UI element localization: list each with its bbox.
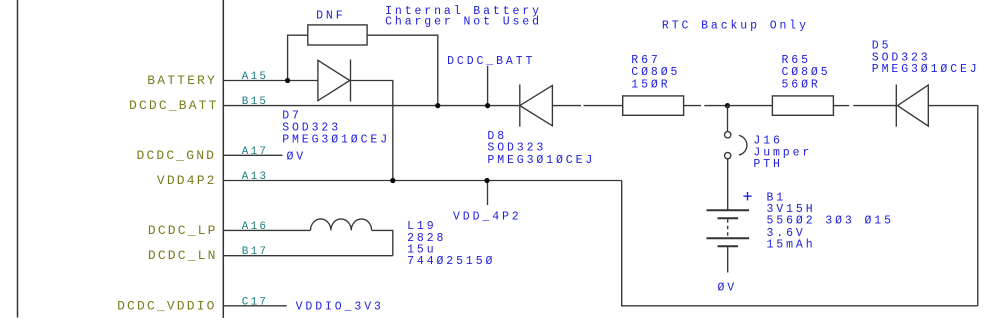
svg-text:DNF: DNF: [316, 9, 345, 22]
svg-text:556Ø2 3Ø3 Ø15: 556Ø2 3Ø3 Ø15: [767, 215, 894, 228]
svg-text:A15: A15: [242, 71, 268, 83]
svg-text:A16: A16: [242, 221, 268, 233]
svg-text:DCDC_LP: DCDC_LP: [148, 223, 218, 238]
svg-text:C17: C17: [242, 296, 268, 308]
diode D7 triangle: [318, 60, 350, 100]
wire A13 row VDD4P2: [224, 180, 622, 182]
junction DNF/DCDC_BATT row: [435, 103, 440, 108]
wire segment to D5 cathode: [853, 105, 896, 107]
svg-text:A13: A13: [242, 171, 268, 183]
svg-text:DCDC_GND: DCDC_GND: [137, 148, 217, 163]
jumper J16 pin 1 circle: [725, 132, 731, 138]
junction DCDC_BATT stub: [485, 103, 490, 108]
diode D8 triangle: [520, 85, 553, 125]
jumper J16 pin 2 circle: [725, 152, 731, 158]
junction A15/DNF: [285, 78, 290, 83]
svg-text:PMEG3Ø1ØCEJ: PMEG3Ø1ØCEJ: [872, 63, 980, 76]
svg-text:DCDC_BATT: DCDC_BATT: [129, 98, 219, 113]
wire segment to J16 junction: [704, 105, 727, 107]
wire D7 cathode to VDD4P2: [351, 81, 393, 181]
junction J16 node: [725, 103, 730, 108]
wire D8 anode to R67: [552, 105, 581, 107]
svg-text:VDD_4P2: VDD_4P2: [453, 211, 522, 224]
wire R67 right lead: [684, 105, 701, 107]
wire R65 left lead: [728, 105, 773, 107]
pin A17 wire: [224, 154, 283, 156]
svg-text:ØV: ØV: [718, 281, 738, 294]
svg-text:SOD323: SOD323: [487, 142, 546, 155]
svg-text:DCDC_LN: DCDC_LN: [148, 248, 218, 263]
wire battery to ground: [727, 246, 729, 272]
junction VDD_4P2 stub: [484, 178, 489, 183]
resistor R67 body: [623, 96, 684, 115]
svg-text:Charger Not Used: Charger Not Used: [385, 16, 542, 29]
battery B1 short plate 1: [718, 217, 739, 219]
svg-text:RTC Backup Only: RTC Backup Only: [662, 20, 809, 33]
svg-text:VDDIO_3V3: VDDIO_3V3: [296, 300, 384, 313]
svg-text:ØV: ØV: [287, 150, 307, 163]
connector bus vertical line: [222, 0, 224, 318]
wire junction to J16 pin1: [727, 106, 729, 132]
wire J16 pin2 to battery: [727, 159, 729, 210]
svg-text:744Ø2515Ø: 744Ø2515Ø: [407, 255, 495, 268]
pin B17 wire: [224, 255, 393, 257]
wire DNF left lead: [288, 35, 308, 80]
svg-text:B17: B17: [242, 246, 268, 258]
jumper J16 arc: [739, 135, 747, 155]
wire bottom return rail: [622, 181, 978, 306]
svg-text:PMEG3Ø1ØCEJ: PMEG3Ø1ØCEJ: [487, 154, 595, 167]
battery B1 plus sign: [743, 192, 751, 200]
resistor R65 body: [772, 96, 833, 115]
diode D8 cathode bar: [519, 85, 521, 127]
svg-text:VDD4P2: VDD4P2: [157, 173, 217, 188]
battery B1 long plate 2: [707, 237, 750, 239]
pin A16 wire: [224, 229, 311, 231]
net label stub DCDC_BATT: [487, 66, 489, 106]
svg-text:DCDC_VDDIO: DCDC_VDDIO: [117, 298, 217, 313]
svg-text:15mAh: 15mAh: [767, 239, 816, 252]
svg-text:PTH: PTH: [753, 158, 782, 171]
svg-text:B15: B15: [242, 96, 268, 108]
svg-text:PMEG3Ø1ØCEJ: PMEG3Ø1ØCEJ: [282, 134, 390, 147]
resistor DNF body: [308, 25, 367, 45]
svg-text:DCDC_BATT: DCDC_BATT: [447, 55, 535, 68]
battery B1 long plate 1: [707, 209, 750, 211]
pin A15 wire: [224, 80, 318, 82]
pin C17 wire: [224, 305, 287, 307]
svg-text:15ØR: 15ØR: [631, 78, 670, 91]
sheet border left edge: [17, 0, 19, 318]
battery B1 short plate 2: [718, 245, 739, 247]
net label stub VDD_4P2: [487, 181, 489, 206]
wire DNF right lead: [367, 35, 438, 105]
svg-text:CØ8Ø5: CØ8Ø5: [631, 66, 680, 79]
junction D7/VDD4P2: [390, 178, 395, 183]
wire D5 anode to right rail: [928, 106, 978, 306]
svg-text:CØ8Ø5: CØ8Ø5: [782, 66, 831, 79]
wire segment to R67 left: [584, 105, 623, 107]
svg-text:BATTERY: BATTERY: [147, 73, 217, 88]
svg-text:A17: A17: [242, 146, 268, 158]
wire L19 right lead: [372, 230, 393, 255]
svg-text:SOD323: SOD323: [282, 121, 341, 134]
battery B1 dashed link: [727, 219, 729, 237]
diode D5 cathode bar: [895, 85, 897, 127]
wire B15 row bus to D8 cathode: [224, 105, 520, 107]
svg-text:56ØR: 56ØR: [782, 78, 821, 91]
diode D5 triangle: [898, 85, 929, 126]
wire R65 right lead: [834, 105, 849, 107]
diode D7 cathode bar: [350, 60, 352, 102]
inductor L19 winding: [311, 219, 372, 231]
